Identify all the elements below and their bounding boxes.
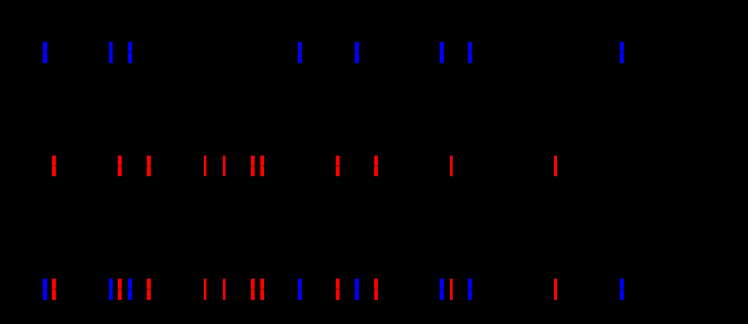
spike train 1 (blue) tick 8 [620, 42, 624, 63]
spike train 2 (red) tick 1 [52, 156, 56, 177]
merged train blue tick 4 mid-notch [298, 289, 302, 290]
merged train red tick 8 [336, 279, 340, 300]
merged train blue tick 6 mid-notch [440, 289, 444, 290]
spike train 1 tick 5 mid-notch [355, 52, 359, 53]
spike train 2 tick 3 mid-notch [147, 165, 151, 166]
merged train red tick 6 mid-notch [251, 289, 255, 290]
spike train 1 tick 7 mid-notch [468, 52, 472, 53]
merged train blue tick 7 mid-notch [468, 289, 472, 290]
merged train red tick 10 [450, 279, 453, 300]
merged train blue tick 7 [468, 279, 472, 300]
merged train red tick 5 [223, 279, 226, 300]
spike train 2 (red) tick 2 [118, 156, 122, 177]
merged train red tick 9 [374, 279, 378, 300]
merged train blue tick 2 mid-notch [109, 289, 113, 290]
merged train red tick 3 mid-notch [147, 289, 151, 290]
spike train 1 tick 8 mid-notch [620, 52, 624, 53]
merged train red tick 9 mid-notch [374, 289, 378, 290]
spike train 1 tick 6 mid-notch [440, 52, 444, 53]
merged train red tick 11 [554, 279, 557, 300]
spike train 2 tick 7 mid-notch [260, 165, 264, 166]
merged train blue tick 4 [298, 279, 302, 300]
spike train 2 (red) tick 9 [374, 156, 378, 177]
merged train red tick 2 mid-notch [118, 289, 122, 290]
spike train 1 (blue) tick 7 [468, 42, 472, 63]
spike train 1 tick 1 mid-notch [43, 52, 48, 53]
spike train 2 tick 8 mid-notch [336, 165, 340, 166]
merged train blue tick 2 [109, 279, 113, 300]
spike train 2 (red) tick 5 [223, 156, 226, 177]
merged train red tick 7 mid-notch [260, 289, 264, 290]
merged train red tick 7 [260, 279, 264, 300]
spike train 2 (red) tick 8 [336, 156, 340, 177]
spike train 1 (blue) tick 4 [298, 42, 302, 63]
spike train 2 tick 9 mid-notch [374, 165, 378, 166]
merged train blue tick 6 [440, 279, 444, 300]
spike train 2 tick 1 mid-notch [52, 165, 56, 166]
merged train red tick 1 mid-notch [52, 289, 56, 290]
spike train 2 (red) tick 11 [554, 156, 557, 177]
merged train blue tick 8 [620, 279, 624, 300]
spike train 1 (blue) tick 5 [355, 42, 359, 63]
spike train 2 tick 2 mid-notch [118, 165, 122, 166]
merged train red tick 4 [204, 279, 207, 300]
merged train blue tick 1 mid-notch [43, 289, 48, 290]
merged train blue tick 1 [43, 279, 47, 300]
spike train 1 tick 2 mid-notch [109, 52, 113, 53]
spike train 2 (red) tick 10 [450, 156, 453, 177]
spike train 1 (blue) tick 1 [43, 42, 47, 63]
merged train blue tick 5 [355, 279, 359, 300]
spike train 1 tick 3 mid-notch [128, 52, 132, 53]
spike train 2 (red) tick 4 [204, 156, 207, 177]
merged train blue tick 5 mid-notch [355, 289, 359, 290]
merged train red tick 6 [251, 279, 255, 300]
merged train red tick 2 [118, 279, 122, 300]
spike train 2 (red) tick 3 [147, 156, 151, 177]
merged train blue tick 3 [128, 279, 132, 300]
merged train blue tick 3 mid-notch [128, 289, 132, 290]
merged train blue tick 8 mid-notch [620, 289, 624, 290]
spike train 1 (blue) tick 2 [109, 42, 113, 63]
spike train 2 (red) tick 7 [260, 156, 264, 177]
spike train 2 (red) tick 6 [251, 156, 255, 177]
spike train 1 (blue) tick 6 [440, 42, 444, 63]
merged train red tick 8 mid-notch [336, 289, 340, 290]
spike train 1 tick 4 mid-notch [298, 52, 302, 53]
merged train red tick 3 [147, 279, 151, 300]
spike train 1 (blue) tick 3 [128, 42, 132, 63]
merged train red tick 1 [52, 279, 56, 300]
spike train 2 tick 6 mid-notch [251, 165, 255, 166]
